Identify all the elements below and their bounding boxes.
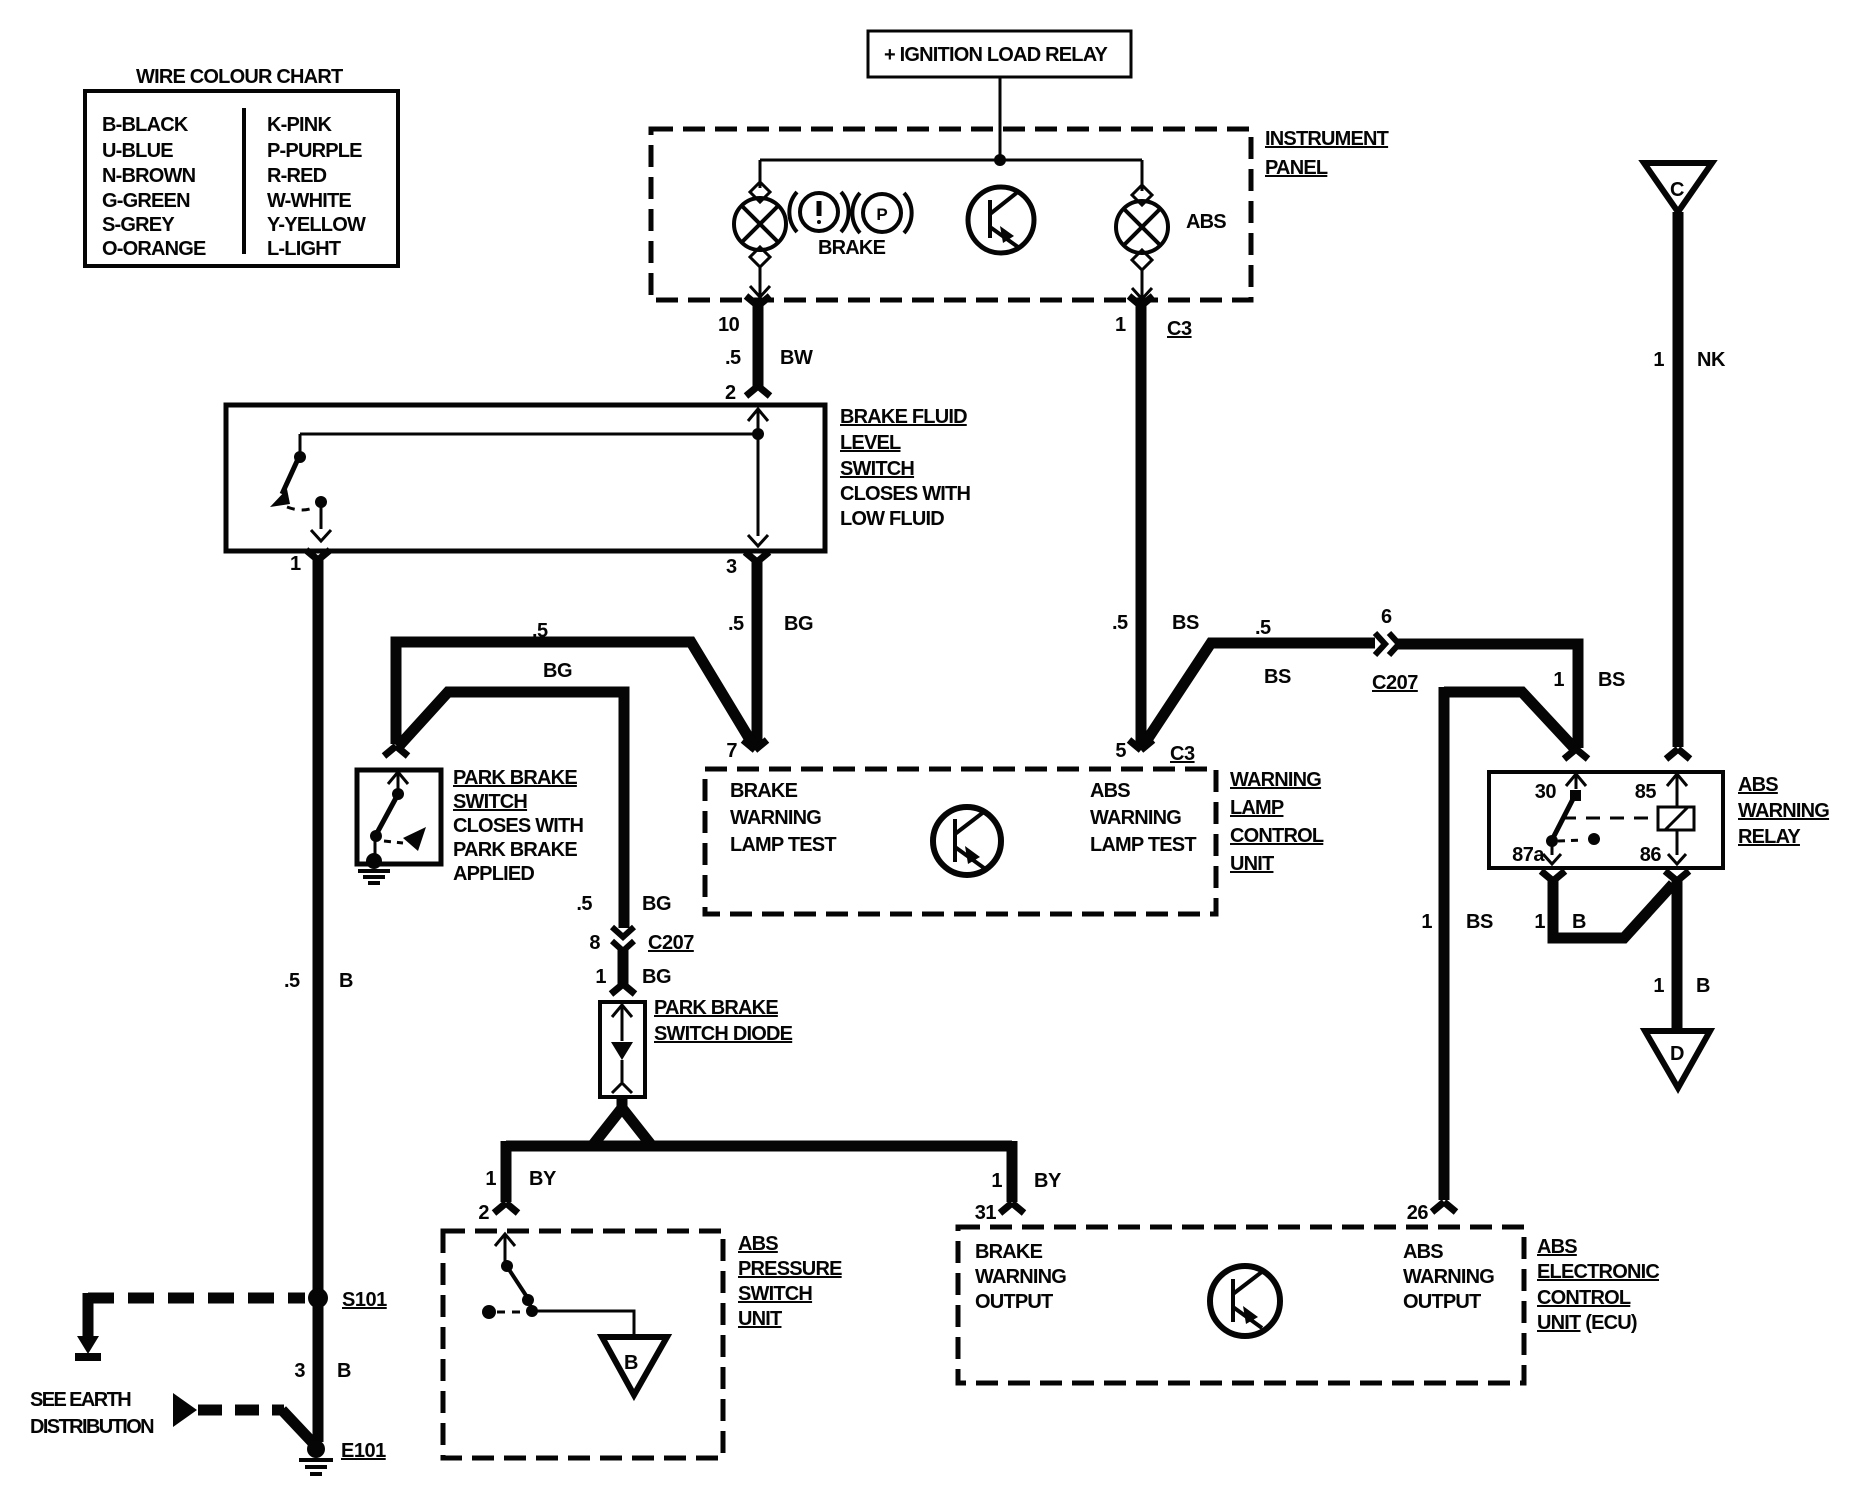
lamp BRAKE warning bulb (750, 182, 770, 202)
svg-text:6: 6 (1381, 606, 1392, 628)
connector pin 31 chevron (abs ecu) (1000, 1203, 1024, 1213)
node ignition feed junction (994, 154, 1006, 166)
switch fluid level lever (282, 459, 298, 494)
SECTION: brake fluid level switch (226, 405, 970, 1292)
arrow to earth distribution (left) (77, 1336, 99, 1354)
wire dashed to other earth users (88, 1293, 305, 1304)
svg-text:SWITCH: SWITCH (840, 458, 914, 480)
svg-text:G-GREEN: G-GREEN (102, 190, 190, 212)
svg-text:3: 3 (294, 1360, 305, 1382)
wire instrument panel bus (760, 159, 1142, 162)
svg-text:PARK BRAKE: PARK BRAKE (654, 997, 778, 1019)
svg-text:+ IGNITION LOAD RELAY: + IGNITION LOAD RELAY (884, 44, 1109, 66)
connector pin 10 chevron (instrument panel, wire BW) (746, 296, 770, 306)
svg-text:BRAKE: BRAKE (975, 1241, 1043, 1263)
arrow entry inside park brake switch (388, 772, 408, 784)
relay coil (1658, 807, 1694, 830)
svg-text:BS: BS (1598, 669, 1625, 691)
svg-text:E101: E101 (341, 1440, 386, 1462)
svg-text:BY: BY (529, 1168, 557, 1190)
wire BG branch horizontal (to park brake switch) (396, 642, 755, 748)
wire colour chart divider (242, 108, 246, 254)
arrow brake lamp to panel edge (750, 286, 770, 297)
svg-text:WARNING: WARNING (1403, 1266, 1494, 1288)
svg-text:WARNING: WARNING (1230, 769, 1321, 791)
connector chevron at diode top (611, 984, 635, 994)
wire dashed from earth distribution (198, 1405, 284, 1416)
svg-text:SEE EARTH: SEE EARTH (30, 1389, 131, 1411)
icon park brake telltale (863, 194, 901, 232)
switch park brake dashed throw (384, 841, 403, 843)
svg-text:31: 31 (975, 1202, 997, 1224)
svg-text:LEVEL: LEVEL (840, 432, 901, 454)
connector C207 inline (vertical) (612, 927, 634, 937)
wire BS C207 to relay pin30 (1397, 644, 1578, 748)
svg-text:2: 2 (478, 1202, 489, 1224)
svg-text:WARNING: WARNING (730, 807, 821, 829)
connector B to earth (triangle) (602, 1337, 667, 1395)
wire BY left drop to pin2 (501, 1141, 512, 1202)
svg-text:ABS: ABS (1090, 780, 1130, 802)
icon brake telltale (800, 193, 838, 231)
park brake switch box (357, 770, 441, 864)
arrow pin 86 exit (1668, 854, 1686, 864)
SECTION: wire colour chart (85, 66, 398, 266)
connector pin 2 chevron (abs pressure switch) (494, 1203, 518, 1213)
arrow abs lamp to panel edge (1132, 288, 1152, 299)
svg-text:B: B (1572, 911, 1586, 933)
svg-text:BRAKE: BRAKE (730, 780, 798, 802)
svg-text:ELECTRONIC: ELECTRONIC (1537, 1261, 1659, 1283)
warning lamp control unit dashed box (705, 769, 1216, 914)
svg-text:ABS: ABS (1738, 774, 1778, 796)
svg-text:UNIT: UNIT (1230, 853, 1274, 875)
svg-text:CONTROL: CONTROL (1230, 825, 1324, 847)
switch pressure contact (501, 1260, 513, 1272)
wire B long vertical to S101 (313, 558, 324, 1292)
svg-text:1: 1 (1653, 975, 1664, 997)
svg-text:B: B (337, 1360, 351, 1382)
svg-text:PARK BRAKE: PARK BRAKE (453, 839, 577, 861)
ignition load relay box (868, 31, 1131, 77)
svg-text:CONTROL: CONTROL (1537, 1287, 1631, 1309)
svg-text:LOW FLUID: LOW FLUID (840, 508, 944, 530)
svg-text:3: 3 (726, 556, 737, 578)
svg-text:BG: BG (784, 613, 813, 635)
svg-text:BRAKE: BRAKE (818, 237, 886, 259)
wire abs lamp drop (1141, 160, 1144, 191)
svg-text:K-PINK: K-PINK (267, 114, 332, 136)
brake fluid level switch box (226, 405, 825, 551)
svg-text:C207: C207 (1372, 672, 1418, 694)
arrow entry inside pressure switch (495, 1234, 515, 1246)
svg-text:WARNING: WARNING (1738, 800, 1829, 822)
svg-text:ABS: ABS (1403, 1241, 1443, 1263)
svg-text:WARNING: WARNING (975, 1266, 1066, 1288)
svg-text:ABS: ABS (738, 1233, 778, 1255)
svg-text:.5: .5 (1255, 617, 1271, 639)
wire switch internal horizontal (300, 433, 758, 436)
svg-text:B: B (624, 1352, 638, 1374)
svg-text:INSTRUMENT: INSTRUMENT (1265, 128, 1389, 150)
svg-text:B-BLACK: B-BLACK (102, 114, 189, 136)
switch fluid level contact (299, 434, 302, 453)
relay dashed throw + contact (1558, 840, 1584, 841)
svg-text:7: 7 (726, 740, 737, 762)
lamp ABS warning bulb (1132, 185, 1152, 205)
svg-text:1: 1 (1653, 349, 1664, 371)
wire BG inner branch (to C207) (398, 692, 624, 928)
svg-text:B: B (339, 970, 353, 992)
SECTION: park brake switch + diode (357, 746, 1062, 1224)
svg-text:5: 5 (1115, 740, 1126, 762)
svg-text:NK: NK (1697, 349, 1726, 371)
wire to pin 87a (1551, 843, 1554, 855)
svg-text:C207: C207 (648, 932, 694, 954)
switch pressure lever (508, 1268, 527, 1297)
svg-text:P: P (876, 205, 887, 224)
icon lamp driver transistor (control unit) (933, 807, 1001, 875)
arrow exit inside diode box (612, 1083, 632, 1093)
svg-text:WARNING: WARNING (1090, 807, 1181, 829)
svg-text:APPLIED: APPLIED (453, 863, 534, 885)
svg-text:87a: 87a (1512, 844, 1545, 866)
wire ignition feed (999, 77, 1002, 160)
svg-text:OUTPUT: OUTPUT (975, 1291, 1053, 1313)
wire BG pin3 down to pin7 (752, 560, 763, 747)
wire NK triangle C to relay pin 85 (1673, 212, 1684, 747)
ground park brake switch (366, 853, 382, 869)
svg-text:L-LIGHT: L-LIGHT (267, 238, 341, 260)
connector pin 2 chevron (brake fluid level switch) (746, 386, 770, 396)
connector C207 inline (horizontal) (1375, 633, 1385, 655)
SECTION: top ignition + instrument panel (651, 31, 1389, 747)
svg-text:LAMP TEST: LAMP TEST (730, 834, 836, 856)
wire coil to pin 86 (1676, 830, 1679, 855)
wire BS branch to ecu pin 26 (1444, 692, 1576, 750)
svg-text:BS: BS (1264, 666, 1291, 688)
svg-text:PANEL: PANEL (1265, 157, 1328, 179)
svg-text:S101: S101 (342, 1289, 387, 1311)
svg-text:1: 1 (1421, 911, 1432, 933)
switch park brake lever (377, 796, 397, 833)
arrow pin 85 entry (1667, 774, 1687, 786)
wire B 87a loop to 86 junction (1553, 879, 1673, 938)
svg-text:PRESSURE: PRESSURE (738, 1258, 842, 1280)
wire to ground inside switch (374, 838, 377, 856)
svg-text:BRAKE FLUID: BRAKE FLUID (840, 406, 967, 428)
svg-text:BW: BW (780, 347, 813, 369)
relay actuation dashed link (1562, 817, 1654, 820)
connector pin 5 chevron (warning lamp control unit) (1129, 740, 1153, 750)
connector pin 85 chevron (relay) (1666, 749, 1690, 759)
svg-text:PARK BRAKE: PARK BRAKE (453, 767, 577, 789)
svg-text:R-RED: R-RED (267, 165, 327, 187)
svg-text:1: 1 (485, 1168, 496, 1190)
wire colour chart box (85, 91, 398, 266)
connector D to earth (triangle) (1645, 1031, 1710, 1088)
svg-text:CLOSES WITH: CLOSES WITH (453, 815, 583, 837)
svg-text:CLOSES WITH: CLOSES WITH (840, 483, 970, 505)
wire B S101 to E101 (313, 1298, 324, 1442)
svg-text:B: B (1696, 975, 1710, 997)
svg-text:ABS: ABS (1537, 1236, 1577, 1258)
arrow pin2 entry inside box (748, 409, 768, 421)
svg-text:26: 26 (1407, 1202, 1429, 1224)
wire BS pin5 to C207 (1143, 643, 1375, 746)
svg-text:LAMP: LAMP (1230, 797, 1284, 819)
svg-text:1: 1 (1115, 314, 1126, 336)
wire BW pin10 to pin2 (753, 304, 764, 387)
svg-text:1: 1 (290, 553, 301, 575)
SECTION: abs warning relay + triangles C D (1421, 163, 1829, 1200)
svg-text:.5: .5 (284, 970, 300, 992)
svg-text:C3: C3 (1167, 318, 1192, 340)
svg-text:SWITCH DIODE: SWITCH DIODE (654, 1023, 793, 1045)
wire internal right drop to pin3 (757, 434, 760, 536)
connector C to harness (triangle) (1644, 163, 1712, 212)
svg-text:86: 86 (1640, 844, 1662, 866)
connector pin 1 chevron C3 (below instrument panel, wire BS) (1129, 296, 1153, 306)
svg-text:BY: BY (1034, 1170, 1062, 1192)
svg-text:30: 30 (1535, 781, 1557, 803)
ground E101 (307, 1440, 325, 1458)
svg-text:C3: C3 (1170, 743, 1195, 765)
svg-text:P-PURPLE: P-PURPLE (267, 140, 362, 162)
connector pin 7 chevron (warning lamp control unit) (743, 740, 767, 750)
icon lamp driver transistor (instrument panel) (968, 187, 1034, 253)
svg-text:BG: BG (642, 966, 671, 988)
wire brake lamp drop (759, 160, 762, 188)
SECTION: earth S101 E101 (30, 1288, 387, 1474)
svg-text:85: 85 (1635, 781, 1657, 803)
svg-text:U-BLUE: U-BLUE (102, 140, 173, 162)
abs pressure switch unit dashed box (443, 1231, 723, 1458)
wire BG C207 to diode (618, 948, 629, 984)
svg-text:.5: .5 (725, 347, 741, 369)
svg-text:BS: BS (1466, 911, 1493, 933)
svg-text:1: 1 (1534, 911, 1545, 933)
svg-text:OUTPUT: OUTPUT (1403, 1291, 1481, 1313)
svg-text:.5: .5 (728, 613, 744, 635)
arrow internal to pin1 (311, 530, 331, 541)
svg-text:N-BROWN: N-BROWN (102, 165, 196, 187)
svg-text:RELAY: RELAY (1738, 826, 1801, 848)
svg-text:.5: .5 (532, 620, 548, 642)
switch pressure fixed contact dashed (482, 1305, 496, 1319)
svg-text:UNIT (ECU): UNIT (ECU) (1537, 1312, 1637, 1334)
svg-text:WIRE COLOUR CHART: WIRE COLOUR CHART (136, 66, 343, 88)
svg-text:UNIT: UNIT (738, 1308, 782, 1330)
wire to triangle B (532, 1311, 634, 1335)
svg-text:D: D (1670, 1043, 1684, 1065)
switch fluid level fixed contact (315, 496, 327, 508)
svg-text:1: 1 (1553, 669, 1564, 691)
arrow from earth distribution (173, 1393, 197, 1427)
SECTION: bottom units (443, 1202, 1659, 1458)
wire BS instrument panel to warning lamp control unit pin 5 (1136, 304, 1147, 747)
connector chevron below pin 86 (1665, 871, 1689, 881)
svg-text:2: 2 (725, 382, 736, 404)
abs electronic control unit dashed box (958, 1227, 1524, 1383)
instrument panel dashed box (651, 129, 1251, 300)
relay switch lever (1553, 797, 1574, 838)
wire BY right drop to pin31 (1007, 1141, 1018, 1202)
node S101 splice (308, 1288, 328, 1308)
svg-text:BG: BG (543, 660, 572, 682)
abs warning relay box (1489, 772, 1723, 868)
wire BY bus (506, 1141, 1012, 1152)
connector pin 30 chevron (relay) (1564, 749, 1588, 759)
diode park brake (611, 1042, 633, 1060)
svg-text:10: 10 (718, 314, 740, 336)
svg-text:C: C (1670, 179, 1684, 201)
svg-text:DISTRIBUTION: DISTRIBUTION (30, 1416, 154, 1438)
svg-text:ABS: ABS (1186, 211, 1226, 233)
svg-text:.5: .5 (576, 893, 592, 915)
svg-text:BG: BG (642, 893, 671, 915)
svg-text:Y-YELLOW: Y-YELLOW (267, 214, 366, 236)
svg-text:SWITCH: SWITCH (738, 1283, 812, 1305)
relay switch common contact (1570, 790, 1581, 801)
connector pin 3 chevron (wire BG) (745, 552, 769, 562)
arrow entry inside diode box (612, 1005, 632, 1017)
svg-text:8: 8 (589, 932, 600, 954)
svg-text:.5: .5 (1112, 612, 1128, 634)
svg-text:SWITCH: SWITCH (453, 791, 527, 813)
icon lamp driver transistor (abs ecu) (1210, 1266, 1280, 1336)
svg-text:W-WHITE: W-WHITE (267, 190, 351, 212)
svg-text:LAMP TEST: LAMP TEST (1090, 834, 1196, 856)
SECTION: warning lamp control unit (705, 606, 1625, 914)
node internal junction (752, 428, 764, 440)
svg-text:1: 1 (991, 1170, 1002, 1192)
connector chevron below pin 87a (1541, 871, 1565, 881)
park brake switch diode box (600, 1002, 645, 1097)
connector pin 1 chevron (wire B) (306, 550, 330, 560)
switch fluid level dashed throw (287, 507, 315, 510)
arrow pin 87a exit (1543, 854, 1561, 864)
arrow internal to pin3 (748, 535, 768, 546)
connector chevron at park brake switch (384, 746, 408, 756)
switch park brake contact (392, 788, 404, 800)
connector pin 26 chevron (abs ecu) (1432, 1202, 1456, 1212)
svg-text:1: 1 (595, 966, 606, 988)
svg-text:S-GREY: S-GREY (102, 214, 175, 236)
wire BY split below diode (617, 1096, 628, 1110)
arrow pin 30 entry (1566, 774, 1586, 786)
svg-text:O-ORANGE: O-ORANGE (102, 238, 206, 260)
wire B junction to triangle D (1672, 879, 1683, 1029)
svg-text:BS: BS (1172, 612, 1199, 634)
